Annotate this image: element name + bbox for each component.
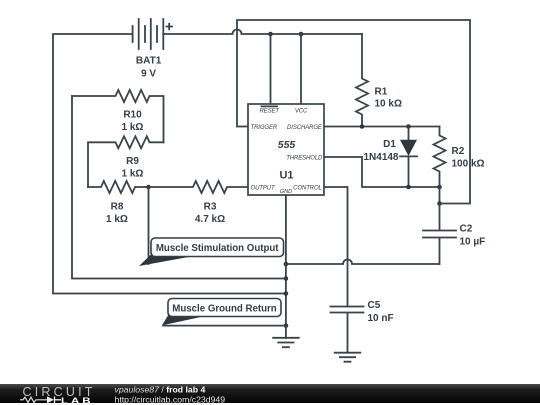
capacitor C2 (423, 204, 485, 265)
node stimulation output label (139, 238, 284, 266)
node ground return label (162, 299, 281, 326)
wire right rail to TRIGGER (237, 20, 470, 204)
svg-text:4.7 kΩ: 4.7 kΩ (195, 214, 225, 225)
wire battery positive rail with hop (163, 30, 362, 34)
svg-text:DISCHARGE: DISCHARGE (287, 125, 323, 131)
svg-text:U1: U1 (279, 170, 293, 182)
node D1 bottom (406, 185, 411, 190)
ground under C5 (335, 353, 361, 362)
svg-text:CONTROL: CONTROL (293, 186, 322, 192)
svg-text:BAT1: BAT1 (136, 55, 162, 66)
resistor R10 (72, 90, 164, 142)
svg-text:vpaulose87 / frod lab 4: vpaulose87 / frod lab 4 (115, 385, 206, 395)
wire muscle ground return stub (163, 325, 286, 327)
node D1 top / discharge (406, 124, 411, 129)
node VCC rail / VCC riser (299, 32, 304, 37)
svg-text:10 kΩ: 10 kΩ (375, 99, 402, 110)
svg-text:100 kΩ: 100 kΩ (452, 158, 485, 169)
svg-text:9 V: 9 V (141, 68, 156, 79)
svg-text:10 µF: 10 µF (460, 237, 486, 248)
svg-text:R9: R9 (126, 156, 139, 167)
svg-text:GND: GND (280, 189, 292, 195)
capacitor C5 (331, 300, 394, 353)
wire THRESHOLD to R2/D1 bottom (324, 157, 440, 187)
svg-text:http://circuitlab.com/c23d949: http://circuitlab.com/c23d949 (115, 394, 226, 404)
svg-text:THRESHOLD: THRESHOLD (286, 156, 323, 162)
svg-text:1N4148: 1N4148 (363, 152, 398, 163)
svg-text:555: 555 (278, 139, 296, 151)
node R2 bottom (437, 185, 442, 190)
resistor R2 (434, 127, 485, 204)
node C2 top / right rail (437, 201, 442, 206)
battery BAT1 (133, 19, 172, 79)
node ground rail / C2 wire (284, 262, 289, 267)
svg-text:Muscle Ground Return: Muscle Ground Return (172, 303, 276, 314)
svg-text:LAB: LAB (61, 397, 93, 405)
svg-text:1 kΩ: 1 kΩ (122, 168, 144, 179)
ground (273, 338, 299, 347)
diode D1 (363, 127, 417, 188)
svg-text:R3: R3 (204, 202, 217, 213)
resistor R8 (88, 181, 149, 225)
op-amp U1 555 timer (248, 104, 324, 195)
wire C2 bottom to ground rail with hop (286, 260, 440, 265)
node R8/R3 output tap (146, 185, 151, 190)
svg-text:OUTPUT: OUTPUT (251, 186, 277, 192)
svg-text:VCC: VCC (295, 109, 308, 115)
logo circuitlab (20, 385, 96, 405)
node ground rail / muscle return stub (284, 323, 289, 328)
svg-text:TRIGGER: TRIGGER (251, 125, 278, 131)
svg-text:R2: R2 (452, 146, 465, 157)
wire battery negative to ground-return rail (53, 34, 286, 294)
wire R10 left to ground rail (72, 96, 286, 279)
node ground rail / battery return (284, 291, 289, 296)
svg-text:Muscle Stimulation Output: Muscle Stimulation Output (156, 243, 279, 254)
resistor R1 (356, 34, 402, 127)
svg-text:RESET: RESET (259, 109, 280, 115)
wire RESET riser (270, 34, 272, 104)
svg-text:1 kΩ: 1 kΩ (106, 214, 128, 225)
svg-text:R10: R10 (123, 110, 142, 121)
svg-text:C2: C2 (460, 224, 473, 235)
svg-text:1 kΩ: 1 kΩ (122, 122, 144, 133)
node VCC rail / RESET riser (268, 32, 273, 37)
svg-text:C5: C5 (368, 300, 381, 311)
svg-text:D1: D1 (383, 139, 396, 150)
footer text (115, 385, 226, 405)
wire VCC riser (300, 34, 302, 104)
svg-text:R8: R8 (111, 202, 124, 213)
wire DISCHARGE row (324, 126, 440, 128)
wire CONTROL to C5 (324, 187, 348, 307)
footer bar (0, 384, 540, 403)
node R1 bottom / discharge (360, 124, 365, 129)
wire output tap down to stimulation terminal (148, 187, 150, 264)
node ground rail / R10 return (284, 276, 289, 281)
resistor R9 (88, 136, 164, 187)
svg-text:R1: R1 (375, 87, 388, 98)
svg-text:10 nF: 10 nF (368, 313, 394, 324)
resistor R3 (149, 181, 249, 225)
wire GND rail (285, 195, 287, 338)
